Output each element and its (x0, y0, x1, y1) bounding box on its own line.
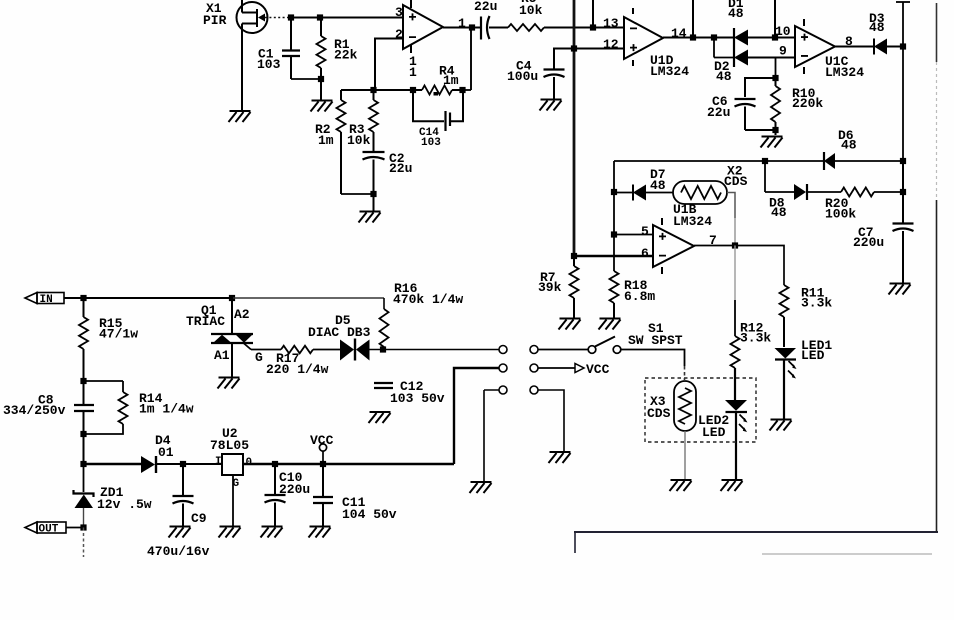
capacitor C7 220u (853, 161, 914, 283)
ground under U2 (219, 527, 241, 538)
ground under LED2 (721, 480, 743, 491)
svg-text:CDS: CDS (647, 406, 671, 421)
op-amp U1D LM324 (624, 17, 689, 79)
resistor R14 1m 1/4w (84, 381, 194, 434)
wire U1A pin 2 input (375, 39, 403, 91)
svg-text:10k: 10k (519, 3, 543, 18)
svg-text:3: 3 (395, 5, 403, 20)
connector pin row1 left (499, 346, 507, 354)
zener diode ZD1 12v .5w (74, 464, 152, 527)
wire U2 ground pin (232, 475, 234, 526)
junction R16 bottom (380, 346, 386, 352)
diode D1 48 (728, 0, 748, 67)
ground under C12 (369, 412, 391, 423)
U1D power stub bottom (632, 60, 634, 66)
svg-text:220 1/4w: 220 1/4w (266, 362, 329, 377)
wire row3 left to ground (484, 390, 499, 481)
junction OUT node (80, 524, 86, 530)
svg-text:VCC: VCC (310, 433, 334, 448)
junction bus/pin6 (571, 253, 577, 259)
resistor R5 10k (508, 0, 544, 31)
svg-text:LM324: LM324 (825, 65, 864, 80)
LED2 LED (698, 400, 748, 440)
junction D4 branch (80, 461, 86, 467)
junction R2/C2 bottom (370, 191, 376, 197)
wire row3 right to ground (538, 390, 564, 451)
svg-text:22u: 22u (707, 105, 730, 120)
junction D1/D2 branch (711, 34, 717, 40)
resistor R1 22k (317, 18, 358, 80)
svg-text:48: 48 (728, 6, 744, 21)
svg-text:6.8m: 6.8m (624, 289, 655, 304)
ground under C11 (309, 527, 331, 538)
stub top crossbar (896, 1, 910, 3)
svg-text:I: I (215, 456, 222, 468)
junction bus / U1D pin 12 (571, 45, 577, 51)
ground under C7 (889, 284, 911, 295)
wire D4 to regulator (157, 463, 222, 465)
LED1 LED (775, 338, 833, 379)
wire top rail y161 (614, 160, 903, 162)
svg-text:CDS: CDS (724, 174, 748, 189)
op-amp U1C LM324 (795, 26, 864, 80)
wire pin9 node down to R10 (775, 58, 777, 79)
U1B power stub bottom (661, 267, 663, 274)
capacitor C6 22u (707, 78, 776, 130)
svg-text:48: 48 (716, 69, 732, 84)
diode D4 01 (84, 433, 174, 473)
svg-text:14: 14 (671, 26, 687, 41)
junction R1 top (317, 14, 323, 20)
ground under C9 (169, 527, 191, 538)
photoresistor X3 CDS (647, 381, 696, 431)
svg-text:A1: A1 (214, 348, 230, 363)
ground under X1 (229, 111, 251, 122)
wire pin14 node to top edge (692, 0, 694, 38)
wire node B vertical (902, 2, 904, 161)
ground under LED1 (770, 420, 792, 431)
svg-text:48: 48 (869, 20, 885, 35)
junction rail/D8 branch (762, 158, 768, 164)
wire R2 bottom to C2 node (341, 193, 374, 195)
wire U1B output pin 7 (694, 245, 735, 247)
capacitor C8 334/250v (3, 381, 94, 434)
PIR sensor X1 (203, 1, 268, 33)
svg-text:VCC: VCC (586, 362, 610, 377)
wire X1 drain to top edge (241, 0, 243, 13)
resistor R2 1m (315, 90, 346, 194)
ground under triac (218, 378, 240, 389)
svg-text:01: 01 (158, 445, 174, 460)
svg-text:9: 9 (779, 44, 787, 59)
svg-text:48: 48 (841, 138, 857, 153)
connector OUT (25, 522, 66, 536)
capacitor C10 220u (265, 464, 311, 526)
voltage regulator U2 78L05 (210, 426, 252, 490)
junction C14 left branch (410, 87, 416, 93)
wire OUT node stub down (dashed) (83, 528, 85, 558)
wire D2 anode (714, 57, 734, 59)
wire U1C output pin 8 (835, 46, 874, 48)
U1A power stub bottom (410, 45, 412, 53)
junction pin10 up-wire (772, 34, 778, 40)
wire C8 node down (83, 434, 85, 464)
capacitor C12 103 50v (374, 379, 445, 406)
resistor R12 3.3k (731, 321, 772, 401)
svg-text:334/250v: 334/250v (3, 403, 66, 418)
junction VCC node (320, 461, 326, 467)
svg-text:220u: 220u (279, 482, 310, 497)
junction C1/R1 bottom (318, 76, 324, 82)
wire IN rail to R16 (233, 297, 384, 299)
svg-text:220u: 220u (853, 235, 884, 250)
resistor R7 39k (538, 256, 579, 318)
wire LED2 to ground (735, 412, 737, 479)
wire row1 right to switch (538, 349, 588, 351)
svg-text:22u: 22u (474, 0, 497, 14)
resistor R15 47/1w (79, 298, 138, 381)
triac Q1 TRIAC (186, 298, 263, 377)
U1B power stub top (661, 218, 663, 225)
junction R3 top (370, 87, 376, 93)
U1A power stub top (410, 0, 412, 8)
wire X3 to ground (684, 431, 686, 479)
ground under R1 (311, 101, 333, 112)
node VCC terminal (310, 433, 334, 464)
junction C10 top (272, 461, 278, 467)
junction rail/node B (900, 158, 906, 164)
wire R5 to U1D pin 13 (544, 27, 624, 29)
wire U1B pin 5 (614, 234, 653, 236)
resistor R10 220k (771, 78, 823, 135)
svg-text:78L05: 78L05 (210, 438, 249, 453)
capacitor C14 103 (413, 90, 463, 149)
switch S1 SW SPST (588, 321, 683, 353)
wire X2 right to pin7 node (727, 193, 735, 219)
ground under C2 (359, 212, 381, 223)
svg-text:LM324: LM324 (650, 64, 689, 79)
svg-text:39k: 39k (538, 280, 562, 295)
wire output node drop (470, 28, 472, 91)
ground row3 left (470, 482, 492, 493)
wire pin7 node to R11 branch (735, 246, 784, 286)
wire D2 to U1C pin 9 (748, 57, 795, 59)
wire vertical x614 rail (613, 161, 615, 271)
svg-text:100k: 100k (825, 207, 856, 222)
svg-text:10: 10 (775, 24, 791, 39)
resistor R11 3.3k (780, 285, 833, 347)
svg-text:13: 13 (603, 16, 619, 31)
wire switch to X3 branch (621, 350, 685, 367)
wire D1 to U1C pin 10 (748, 37, 795, 39)
border bottom line (574, 531, 938, 533)
junction node A (288, 14, 294, 20)
junction R10/C6 bottom (772, 127, 778, 133)
svg-text:48: 48 (771, 205, 787, 220)
resistor R20 100k (807, 188, 903, 222)
junction C8/R14 bottom (80, 431, 86, 437)
svg-text:PIR: PIR (203, 13, 227, 28)
svg-text:A2: A2 (234, 307, 250, 322)
wire OUT to node (66, 527, 84, 529)
wire IN rail (64, 297, 233, 299)
wire VCC rail riser (454, 368, 499, 464)
ground under R18 (599, 319, 621, 330)
connector pin row2 left (499, 364, 507, 372)
junction C8 top (80, 378, 86, 384)
wire D2 branch drop (713, 38, 715, 58)
wire U1A output pin 1 (443, 27, 480, 29)
svg-text:22k: 22k (334, 48, 358, 63)
scan artifact mark under R4 (434, 92, 439, 96)
diode D8 48 (765, 184, 807, 220)
svg-text:6: 6 (641, 246, 649, 261)
svg-text:12: 12 (603, 37, 619, 52)
wire feedback node y90 (341, 89, 462, 91)
svg-text:48: 48 (650, 178, 666, 193)
node VCC arrow (575, 362, 610, 377)
junction R20/C7 node (900, 189, 906, 195)
capacitor C4 100u (507, 49, 574, 100)
border faint inner line (762, 553, 932, 555)
wire C2 node to ground (373, 194, 375, 211)
svg-text:100u: 100u (507, 69, 538, 84)
svg-text:3.3k: 3.3k (740, 331, 771, 346)
wire U1D pin 12 (574, 48, 624, 50)
op-amp U1A LM324 (403, 5, 443, 49)
svg-text:SW SPST: SW SPST (628, 333, 683, 348)
svg-text:3.3k: 3.3k (801, 296, 832, 311)
svg-text:LM324: LM324 (673, 214, 712, 229)
ground under C4 (540, 100, 562, 111)
photoresistor X2 CDS (646, 164, 748, 205)
svg-text:5: 5 (641, 224, 649, 239)
svg-text:OUT: OUT (39, 524, 59, 536)
wire D8 branch drop (764, 161, 766, 192)
diode D2 48 (714, 50, 748, 85)
junction R10/C6 top (772, 75, 778, 81)
svg-text:LED: LED (801, 348, 825, 363)
wire pin13 node to top edge (592, 0, 594, 28)
junction pin14 up-wire (690, 34, 696, 40)
connector pin row3 left (499, 386, 507, 394)
junction C9 top (180, 461, 186, 467)
connector pin row1 right (530, 346, 538, 354)
svg-text:1m: 1m (443, 73, 459, 88)
wire pin10 node to top edge (774, 0, 776, 38)
svg-text:103: 103 (257, 57, 281, 72)
svg-text:LED: LED (702, 425, 726, 440)
svg-text:470u/16v: 470u/16v (147, 544, 210, 559)
U1C power stub bottom (803, 67, 805, 74)
diac D5 DIAC DB3 (308, 313, 371, 361)
svg-text:12v .5w: 12v .5w (97, 497, 152, 512)
svg-text:10k: 10k (347, 133, 371, 148)
diode D7 48 (614, 167, 666, 201)
svg-text:C9: C9 (191, 511, 207, 526)
junction node B (900, 43, 906, 49)
connector IN (25, 293, 64, 307)
wire U2 output rail (243, 463, 454, 465)
junction pin7 node (732, 242, 738, 248)
capacitor C1 103 (257, 18, 300, 80)
wire R4 right jog to output drop (462, 89, 471, 91)
capacitor C9 470u/16v (147, 464, 210, 559)
wire X1 gate to node A (dotted) (265, 17, 291, 19)
resistor R3 10k (347, 90, 378, 152)
svg-text:103: 103 (421, 137, 441, 149)
capacitor C2 22u (363, 151, 413, 194)
junction R4 right (459, 87, 465, 93)
resistor R16 470k 1/4w (380, 281, 464, 350)
svg-text:1: 1 (409, 65, 417, 80)
ground under R10 (761, 137, 783, 148)
junction D7 branch (611, 189, 617, 195)
border right line (936, 3, 938, 532)
svg-text:103 50v: 103 50v (390, 391, 445, 406)
svg-text:TRIAC: TRIAC (186, 314, 225, 329)
U1D power stub top (632, 8, 634, 14)
wire U1D output pin 14 (663, 37, 734, 39)
dotted box around X3/LED2 (645, 378, 756, 442)
wire R1 bottom to ground (320, 79, 322, 100)
junction pin5 branch (611, 231, 617, 237)
ground under R7 (559, 319, 581, 330)
svg-text:IN: IN (40, 294, 53, 306)
capacitor C3 22u (474, 0, 508, 40)
diode D6 48 (824, 128, 857, 170)
svg-text:470k 1/4w: 470k 1/4w (393, 292, 463, 307)
ground under X3 (670, 480, 692, 491)
junction R15 top (80, 295, 86, 301)
connector pin row2 right (530, 364, 538, 372)
resistor R4 1m (422, 64, 459, 95)
ground under C10 (261, 527, 283, 538)
junction pin13 node (590, 24, 596, 30)
svg-text:1: 1 (458, 16, 466, 31)
svg-text:22u: 22u (389, 161, 412, 176)
svg-text:2: 2 (395, 27, 403, 42)
wire D3 to node B (887, 46, 903, 48)
wire diac to connector (369, 349, 499, 351)
wire vertical bus x574 (573, 0, 576, 256)
capacitor C11 104 50v (313, 464, 397, 526)
wire U1B pin 6 (574, 255, 653, 258)
diode D3 48 (869, 11, 887, 55)
junction output node (469, 24, 475, 30)
resistor R18 6.8m (610, 271, 656, 318)
junction triac A2 node (229, 295, 235, 301)
resistor R17 220 1/4w (251, 346, 329, 377)
svg-text:47/1w: 47/1w (99, 327, 138, 342)
svg-text:DIAC DB3: DIAC DB3 (308, 325, 371, 340)
op-amp U1B LM324 (653, 202, 712, 267)
U1A power pin 11 label (409, 54, 417, 80)
border corner stub (574, 532, 576, 553)
connector pin row3 right (530, 386, 538, 394)
svg-text:1m 1/4w: 1m 1/4w (139, 402, 194, 417)
svg-text:G: G (255, 350, 263, 365)
wire C1 bottom to R1 bottom (291, 78, 321, 80)
svg-text:1m: 1m (318, 133, 334, 148)
wire row2 right to VCC arrow (538, 367, 575, 369)
svg-text:104 50v: 104 50v (342, 507, 397, 522)
U1C power stub top (803, 19, 805, 26)
wire X1 source down (241, 24, 243, 112)
wire LED1 to ground (783, 361, 785, 420)
svg-text:220k: 220k (792, 96, 823, 111)
ground row3 right (549, 452, 571, 463)
wire node A to U1A pin 3 (291, 17, 403, 19)
wire pin7 node down to R12 (faint) (734, 246, 736, 301)
